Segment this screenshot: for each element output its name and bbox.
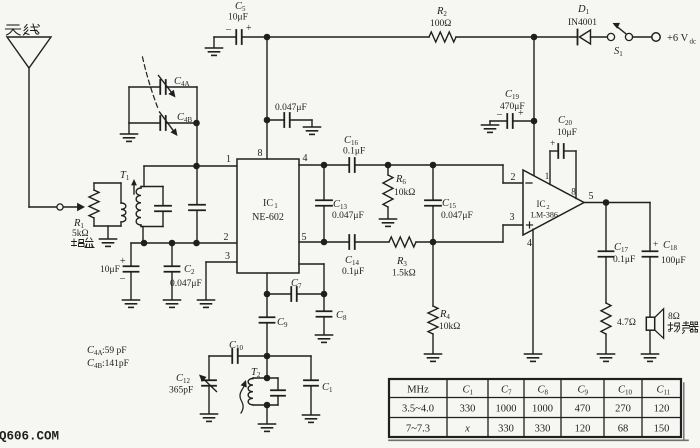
node junction C4B right xyxy=(193,120,200,127)
label C16 0.1μF xyxy=(343,135,365,157)
svg-text:dc: dc xyxy=(690,38,697,46)
label C4A xyxy=(174,76,190,88)
node junction pin6/C7 xyxy=(264,291,271,298)
wire C4 gang left top xyxy=(129,86,160,88)
svg-text:1000: 1000 xyxy=(532,404,553,415)
svg-text:+: + xyxy=(120,256,126,267)
svg-text:–: – xyxy=(496,109,503,120)
resistor R3 xyxy=(389,237,416,247)
svg-text:–: – xyxy=(225,24,232,35)
label C17 0.1μF xyxy=(613,242,635,265)
capacitor C4B (variable) xyxy=(160,116,166,130)
label C2 0.047μF xyxy=(170,264,202,289)
label C15 0.047μF xyxy=(441,198,473,221)
ground (T2) xyxy=(259,424,276,431)
watermark Q606.COM xyxy=(0,430,59,444)
svg-text:0.047μF: 0.047μF xyxy=(441,211,473,221)
capacitor 0.047μF pin8 bypass xyxy=(267,113,312,127)
svg-text:4.7Ω: 4.7Ω xyxy=(617,318,636,328)
note C4A:59pF C4B:141pF xyxy=(87,345,129,370)
wire IC1 pin 3 to ground xyxy=(206,262,237,299)
node junction C13 bottom xyxy=(321,239,328,246)
svg-text:Q606.COM: Q606.COM xyxy=(0,430,59,444)
ground (C1) xyxy=(303,415,320,422)
svg-text:+: + xyxy=(246,23,252,34)
node junction C15/R4 xyxy=(430,239,437,246)
wire IC1 pin 6 drop xyxy=(266,273,268,294)
IC1 pin label 1 xyxy=(226,154,231,165)
IC1 pin label 4 xyxy=(303,153,308,164)
svg-text:0.047μF: 0.047μF xyxy=(332,211,364,221)
svg-text:470: 470 xyxy=(575,404,591,415)
svg-text:10kΩ: 10kΩ xyxy=(394,188,415,198)
wire node to IC1 pin 1 xyxy=(144,165,237,167)
wire C4A right xyxy=(166,86,197,88)
wire IC2 pin 4 to ground xyxy=(532,229,534,353)
T1 tuning arrow xyxy=(131,179,137,194)
table row 7~7.3 xyxy=(406,424,669,435)
svg-text:4: 4 xyxy=(527,238,532,249)
label C5 10μF xyxy=(225,1,252,35)
label C19 470μF xyxy=(496,89,525,120)
antenna 天线 symbol xyxy=(7,37,51,207)
label C10 xyxy=(229,340,244,352)
transformer T1 secondary winding xyxy=(136,187,141,227)
ground (C2) xyxy=(164,300,181,307)
capacitor T2 tank cap xyxy=(271,378,285,405)
wire R1 top to T1 primary xyxy=(94,183,121,203)
capacitor T1 tank cap xyxy=(155,187,171,227)
node junction oscillator tank xyxy=(264,353,271,360)
capacitor C16 xyxy=(349,158,355,172)
transformer T2 winding xyxy=(248,378,278,405)
svg-text:0.1μF: 0.1μF xyxy=(613,255,635,265)
svg-text:2: 2 xyxy=(224,232,229,243)
label C20 10μF xyxy=(550,115,577,149)
label 4.7Ω xyxy=(617,318,636,328)
capacitor C12 365pF (variable) xyxy=(202,356,216,413)
wire tank rail xyxy=(209,355,311,357)
wire tank to T2 xyxy=(266,356,268,378)
gang dashed link xyxy=(143,57,159,109)
svg-text:120: 120 xyxy=(575,424,591,435)
label T2 xyxy=(251,367,261,379)
label 8Ω xyxy=(668,312,680,322)
wire IC1 pin 4 line xyxy=(299,165,523,183)
svg-text:MHz: MHz xyxy=(407,385,429,396)
node junction T2 bottom xyxy=(264,402,271,409)
wire S1 to terminal xyxy=(633,36,652,38)
node junction C19 xyxy=(531,118,538,125)
svg-text::141pF: :141pF xyxy=(102,359,129,369)
svg-text:270: 270 xyxy=(615,404,631,415)
capacitor C5 (electrolytic) xyxy=(214,30,267,44)
IC1 pin label 8 xyxy=(258,148,263,159)
label C7 xyxy=(291,278,302,290)
resistor R6 xyxy=(383,165,393,218)
svg-text:+6 V: +6 V xyxy=(667,33,689,44)
node junction pin7/C7/C8 xyxy=(321,291,328,298)
svg-text:0.1μF: 0.1μF xyxy=(342,267,364,277)
IC2 pin label 3 xyxy=(510,212,515,223)
svg-text:10kΩ: 10kΩ xyxy=(439,322,460,332)
IC1 pin label 3 xyxy=(225,251,230,262)
wire T1 tank bottom rail xyxy=(141,226,163,228)
wire C4 gang bottom left xyxy=(129,122,160,124)
svg-text:+: + xyxy=(550,139,555,149)
label R1 5kΩ 增益 xyxy=(72,218,95,248)
diode D1 IN4001 xyxy=(534,30,607,45)
capacitor C17 xyxy=(599,203,614,304)
IC2 pin label 1 xyxy=(545,171,550,181)
svg-text:5: 5 xyxy=(589,191,594,202)
resistor R1 (5k gain pot) xyxy=(89,183,99,226)
capacitor C1 xyxy=(304,356,318,414)
table shadow xyxy=(389,383,688,440)
capacitor C7 xyxy=(267,287,324,301)
svg-text:330: 330 xyxy=(460,404,476,415)
label C9 xyxy=(277,317,288,329)
svg-text:120: 120 xyxy=(654,404,670,415)
svg-text:10μF: 10μF xyxy=(557,128,577,138)
C12 arrow xyxy=(199,375,217,392)
capacitor C10 xyxy=(232,349,238,363)
ground (C4 gang) xyxy=(121,123,138,141)
capacitor C18 100μF (electrolytic) xyxy=(643,251,658,316)
svg-text:1: 1 xyxy=(545,171,550,181)
wire C4 gang left vertical xyxy=(128,87,130,123)
svg-text:100μF: 100μF xyxy=(661,256,686,266)
svg-text:0.047μF: 0.047μF xyxy=(170,279,202,289)
table row 3.5~4.0 xyxy=(402,404,669,415)
label C8 xyxy=(336,310,347,322)
ground (IC2 pin4) xyxy=(525,354,542,361)
C4A arrow xyxy=(159,76,176,98)
svg-text:1000: 1000 xyxy=(496,404,517,415)
label + 10μF xyxy=(100,256,126,284)
node junction pin1 line / C4B / cap xyxy=(193,163,200,170)
speaker 扬声器 8Ω xyxy=(646,309,663,353)
node junction R6 top xyxy=(385,162,392,169)
node junction bypass cap tap xyxy=(193,240,200,247)
capacitor C14 xyxy=(349,235,355,249)
capacitor (RF bypass, unlabeled) xyxy=(189,166,205,243)
IC2 pin label 4 xyxy=(527,238,532,249)
node junction C15 top xyxy=(430,162,437,169)
IC1 pin label 2 xyxy=(224,232,229,243)
capacitor C19 470μF (electrolytic) xyxy=(490,114,534,128)
node junction pin8 bypass xyxy=(264,117,271,124)
svg-text:10μF: 10μF xyxy=(228,13,248,23)
capacitor C20 10μF (gain) xyxy=(550,144,576,199)
label R4 10kΩ xyxy=(439,309,460,332)
svg-text:330: 330 xyxy=(498,424,514,435)
wire IC2 output xyxy=(584,203,650,252)
svg-text:1: 1 xyxy=(226,154,231,165)
op-amp/mixer IC1 NE-602 body xyxy=(237,159,299,273)
node junction C13 top xyxy=(321,162,328,169)
transformer T1 primary winding xyxy=(121,203,126,226)
svg-text:4: 4 xyxy=(303,153,308,164)
label C13 0.047μF xyxy=(332,199,364,221)
svg-text:8: 8 xyxy=(258,148,263,159)
ground (C5) xyxy=(206,37,223,55)
svg-text:330: 330 xyxy=(535,424,551,435)
svg-text:–: – xyxy=(119,273,126,284)
op-amp IC2 LM386 body xyxy=(523,170,584,235)
capacitor C15 xyxy=(425,165,441,242)
label R3 1.5kΩ xyxy=(392,256,416,279)
wire IC1 pin 5 line xyxy=(299,225,523,242)
svg-text:+: + xyxy=(518,108,524,119)
wire R1 bottom rail xyxy=(94,225,121,227)
svg-text:LM-386: LM-386 xyxy=(531,211,558,220)
wire T2 to ground xyxy=(266,405,268,423)
svg-text:0.1μF: 0.1μF xyxy=(343,147,365,157)
resistor R4 xyxy=(428,242,438,353)
node junction T2 top xyxy=(264,375,271,382)
svg-text:1: 1 xyxy=(274,202,278,210)
svg-text:2: 2 xyxy=(511,172,516,183)
svg-text:150: 150 xyxy=(654,424,670,435)
label 0.047μF (pin8) xyxy=(275,103,307,113)
label C14 0.1μF xyxy=(342,255,364,277)
svg-text:100Ω: 100Ω xyxy=(430,19,451,29)
label C1 xyxy=(322,382,333,394)
ground (pin8 bypass) xyxy=(304,120,321,134)
label R2 100Ω xyxy=(430,6,451,29)
svg-text:3: 3 xyxy=(510,212,515,223)
terminal +6V xyxy=(652,33,660,41)
label C12 365pF xyxy=(169,373,193,396)
svg-text:7~7.3: 7~7.3 xyxy=(406,424,430,435)
wire supply drop xyxy=(533,37,535,176)
label T1 xyxy=(120,170,130,182)
IC2 pin label 2 xyxy=(511,172,516,183)
capacitor C13 xyxy=(316,165,332,242)
svg-text:IC: IC xyxy=(263,198,273,209)
ground (C19) xyxy=(482,121,499,132)
ground (R6) xyxy=(380,219,397,226)
table header row xyxy=(407,385,671,397)
svg-text:IN4001: IN4001 xyxy=(568,18,597,28)
wire antenna to input terminal xyxy=(29,206,57,208)
wire T1 tank top rail xyxy=(141,166,163,187)
wire C4B right xyxy=(166,122,197,124)
svg-text:x: x xyxy=(464,424,470,435)
wire IC1 pin-2 rail xyxy=(131,242,237,244)
svg-text:365pF: 365pF xyxy=(169,386,193,396)
ground (speaker) xyxy=(642,354,659,361)
antenna label 天线 (glyph strokes) xyxy=(6,24,40,35)
label +6 Vdc xyxy=(667,33,696,46)
svg-text:8Ω: 8Ω xyxy=(668,312,680,322)
wire IC1 pin 8 vertical xyxy=(266,37,268,159)
capacitor 10μF (electrolytic) xyxy=(124,243,139,299)
ground (C12) xyxy=(201,414,218,421)
node junction supply/C5 xyxy=(264,34,271,41)
IC1 pin label 5 xyxy=(302,232,307,243)
ground (C8) xyxy=(316,335,333,342)
svg-text:3: 3 xyxy=(225,251,230,262)
label R6 10kΩ xyxy=(394,174,415,198)
node junction T1 bottom xyxy=(141,240,148,247)
node junction supply/D1/C19 xyxy=(531,34,538,41)
label C4B xyxy=(177,112,193,124)
capacitor C9 xyxy=(260,294,275,356)
label 扬声器 (glyph strokes) xyxy=(668,322,698,334)
wire +6V rail xyxy=(267,36,534,38)
wire C4 right vertical to pin1 line xyxy=(196,87,198,166)
input terminal node xyxy=(57,204,63,210)
capacitor C2 xyxy=(165,243,180,299)
svg-text:68: 68 xyxy=(618,424,629,435)
svg-text:0.047μF: 0.047μF xyxy=(275,103,307,113)
wire T1 secondary to pin2 rail xyxy=(142,227,144,244)
svg-text:+: + xyxy=(653,240,658,250)
svg-text:5kΩ: 5kΩ xyxy=(72,229,89,239)
label D1 IN4001 xyxy=(568,4,597,28)
ground (10μF) xyxy=(123,300,140,307)
ground (zobel) xyxy=(598,354,615,361)
table border/grid xyxy=(389,379,681,437)
switch S1 xyxy=(607,23,632,41)
IC2 pin label 8 xyxy=(571,187,576,197)
svg-text:NE-602: NE-602 xyxy=(252,212,284,223)
capacitor C8 xyxy=(317,294,332,334)
node junction C2 tap xyxy=(169,240,176,247)
IC2 pin label 5 xyxy=(589,191,594,202)
resistor 4.7Ω xyxy=(601,303,611,353)
label C18 100μF xyxy=(653,240,686,266)
ground (R4) xyxy=(425,354,442,361)
resistor R2 xyxy=(429,32,456,42)
node junction output xyxy=(603,199,610,206)
svg-text:IC: IC xyxy=(537,199,546,209)
C4B arrow xyxy=(160,112,178,136)
input arrow to R1 wiper xyxy=(63,203,85,212)
svg-text:1.5kΩ: 1.5kΩ xyxy=(392,269,416,279)
capacitor C4A (variable) xyxy=(160,80,166,94)
label S1 xyxy=(614,46,623,58)
T2 tuning arrow (slug) xyxy=(240,380,247,413)
svg-text::59 pF: :59 pF xyxy=(102,346,127,356)
svg-text:10μF: 10μF xyxy=(100,265,120,275)
svg-text:3.5~4.0: 3.5~4.0 xyxy=(402,404,434,415)
wire IC1 pin 7 drop xyxy=(299,264,324,294)
ground (R1 / T1 primary) xyxy=(100,226,117,246)
ground (pin 3) xyxy=(198,300,215,307)
